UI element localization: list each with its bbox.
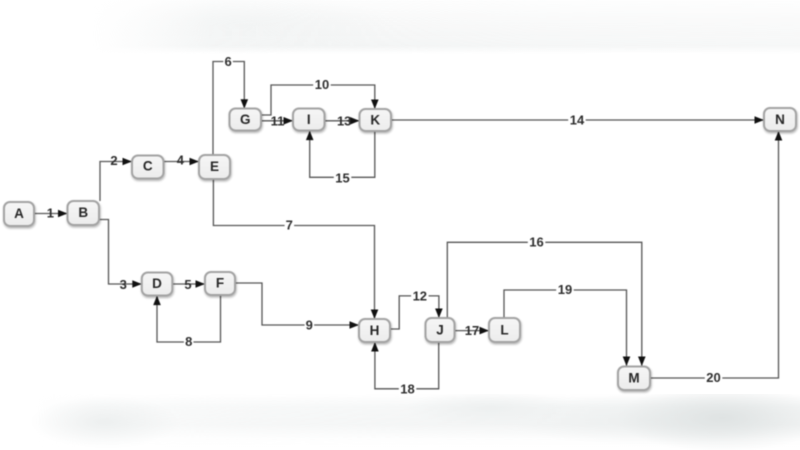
svg-text:13: 13 <box>337 113 351 128</box>
svg-text:G: G <box>240 112 251 127</box>
svg-text:D: D <box>152 276 162 291</box>
svg-text:5: 5 <box>184 277 191 292</box>
svg-text:9: 9 <box>306 318 313 333</box>
svg-text:11: 11 <box>271 113 285 128</box>
svg-text:20: 20 <box>706 370 720 385</box>
svg-text:19: 19 <box>558 282 572 297</box>
svg-text:H: H <box>370 323 380 338</box>
svg-text:14: 14 <box>570 112 585 127</box>
svg-text:15: 15 <box>335 171 349 186</box>
svg-text:B: B <box>78 205 88 220</box>
svg-text:3: 3 <box>120 277 127 292</box>
svg-text:12: 12 <box>413 289 427 304</box>
svg-text:A: A <box>14 206 24 221</box>
svg-text:I: I <box>307 112 311 127</box>
svg-text:18: 18 <box>400 382 414 397</box>
svg-text:F: F <box>216 276 224 291</box>
svg-text:E: E <box>210 159 219 174</box>
svg-text:8: 8 <box>185 334 192 349</box>
svg-text:6: 6 <box>224 54 231 69</box>
svg-text:J: J <box>436 322 444 337</box>
svg-text:N: N <box>775 112 785 127</box>
svg-text:L: L <box>500 322 508 337</box>
svg-text:1: 1 <box>47 206 54 221</box>
svg-text:M: M <box>628 370 639 385</box>
svg-text:10: 10 <box>315 77 329 92</box>
svg-text:C: C <box>143 159 153 174</box>
svg-text:4: 4 <box>177 153 185 168</box>
svg-text:2: 2 <box>110 153 117 168</box>
svg-text:7: 7 <box>286 217 293 232</box>
svg-text:K: K <box>370 112 380 127</box>
svg-text:17: 17 <box>465 323 479 338</box>
svg-text:16: 16 <box>529 235 543 250</box>
